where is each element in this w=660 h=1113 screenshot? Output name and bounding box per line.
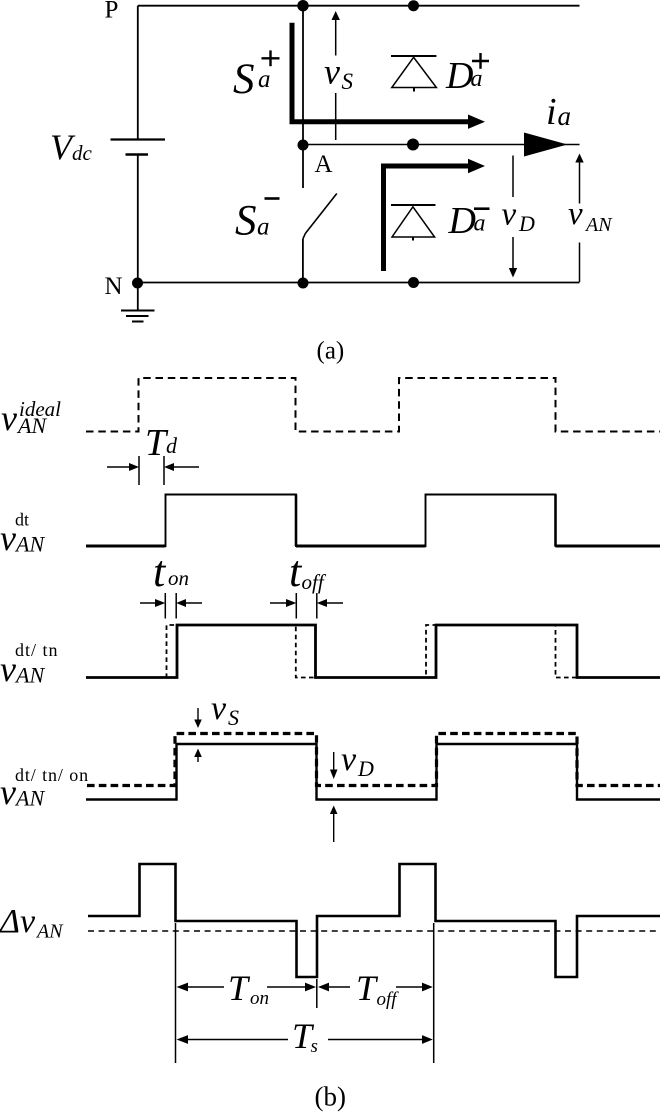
svg-text:D: D	[357, 756, 374, 781]
svg-text:AN: AN	[14, 663, 45, 688]
svg-text:dt: dt	[15, 510, 29, 530]
svg-text:on: on	[250, 988, 269, 1009]
svg-text:D: D	[518, 211, 535, 236]
svg-text:a: a	[471, 66, 483, 92]
svg-text:v: v	[0, 518, 16, 558]
svg-text:AN: AN	[14, 786, 45, 811]
svg-text:v: v	[568, 196, 583, 232]
svg-text:v: v	[341, 741, 357, 778]
svg-text:v: v	[1, 398, 17, 438]
svg-text:D: D	[445, 55, 473, 97]
svg-text:T: T	[228, 968, 251, 1008]
svg-text:dc: dc	[72, 141, 93, 165]
svg-text:AN: AN	[14, 532, 45, 557]
svg-text:N: N	[105, 273, 123, 300]
svg-text:dt/ tn: dt/ tn	[15, 640, 59, 660]
svg-text:D: D	[448, 200, 476, 242]
svg-text:dt/ tn/ on: dt/ tn/ on	[15, 765, 89, 785]
svg-text:t: t	[153, 547, 167, 596]
svg-text:v: v	[0, 772, 16, 812]
svg-text:v: v	[211, 690, 227, 727]
svg-text:(b): (b)	[315, 1082, 346, 1112]
svg-text:a: a	[558, 101, 572, 131]
svg-text:S: S	[235, 198, 257, 245]
svg-text:S: S	[233, 56, 255, 103]
svg-text:a: a	[258, 66, 271, 93]
svg-text:s: s	[311, 1036, 318, 1057]
svg-text:v: v	[324, 52, 340, 92]
svg-text:Δv: Δv	[0, 903, 36, 940]
svg-text:AN: AN	[35, 921, 64, 943]
svg-text:AN: AN	[16, 413, 47, 438]
svg-text:off: off	[377, 989, 400, 1010]
svg-text:a: a	[257, 214, 270, 241]
svg-text:v: v	[0, 649, 16, 689]
svg-text:v: v	[502, 197, 517, 233]
svg-text:A: A	[315, 151, 333, 178]
svg-text:a: a	[474, 211, 486, 237]
svg-text:S: S	[228, 705, 239, 730]
svg-text:(a): (a)	[317, 338, 345, 365]
svg-text:P: P	[105, 0, 119, 24]
svg-text:on: on	[168, 566, 189, 590]
svg-text:off: off	[302, 570, 327, 594]
svg-text:S: S	[342, 69, 354, 94]
svg-text:d: d	[166, 433, 178, 458]
svg-text:AN: AN	[584, 214, 613, 236]
svg-text:i: i	[546, 91, 557, 133]
